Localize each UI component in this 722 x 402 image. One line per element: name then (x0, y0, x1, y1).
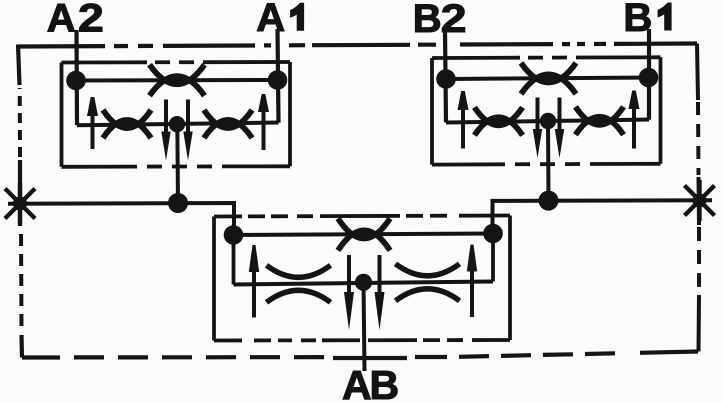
enclosure right lower dashes (697, 227, 701, 293)
orifice AB lower-left (open) (267, 265, 331, 302)
wire: AB left vertical (232, 235, 236, 285)
node: B1 dot (639, 68, 659, 88)
label B2 (413, 0, 467, 41)
check arrow AB left up (249, 245, 259, 318)
label B1 (623, 0, 671, 40)
wire: manifold line right (AB right stub to star) (493, 200, 713, 233)
wire: B lower line (446, 120, 649, 123)
svg-text:2: 2 (441, 0, 467, 41)
svg-text:B: B (370, 362, 400, 402)
label AB (342, 362, 399, 402)
svg-text:A: A (47, 0, 76, 41)
wire: A2 port line (74, 30, 79, 125)
check arrow A right up (258, 94, 269, 150)
orifice B lower-right (crossing) (576, 107, 624, 135)
wire: B1 port line (647, 29, 651, 120)
valve body B: bottom edge (432, 162, 661, 167)
check arrow B right up (629, 91, 640, 149)
enclosure left edge dashes (18, 88, 22, 158)
wire: manifold line left (star to AB left stub) (8, 203, 234, 235)
svg-text:2: 2 (78, 0, 104, 41)
valve body B: top edge (432, 55, 661, 60)
node: B center dot (540, 113, 556, 129)
svg-text:A: A (256, 0, 285, 40)
wire: AB center port down (364, 282, 365, 371)
wire: A top line (76, 78, 278, 83)
enclosure right edge dashes (696, 102, 701, 175)
node: A2 dot (66, 71, 86, 91)
flow arrow B center-right down (555, 98, 564, 159)
valve body AB: left edge (212, 217, 216, 341)
valve body B: bottom edge middle dashes (505, 162, 590, 166)
flow arrow AB center-right down (375, 255, 385, 330)
valve body B: right edge (659, 57, 663, 164)
orifice B lower-left (crossing) (475, 107, 523, 135)
flow arrow A center-right down (183, 100, 192, 161)
valve body A: bottom edge middle dashes (137, 164, 225, 168)
valve body A: right edge (288, 62, 292, 166)
enclosure top dashed line (18, 44, 697, 47)
wire: B center port down (546, 121, 551, 201)
check arrow B left up (458, 91, 469, 149)
orifice B top (crossing) (521, 63, 576, 94)
enclosure left edge lower dashes (19, 228, 24, 333)
check arrow AB right up (467, 245, 477, 318)
flow arrow AB center-left down (344, 255, 354, 330)
wire: AB right vertical (491, 234, 495, 282)
enclosure right edge (697, 44, 699, 352)
node: AB center dot (355, 274, 372, 291)
enclosure left edge (18, 45, 22, 358)
valve body AB: bottom edge (214, 338, 510, 342)
wire: AB top line (234, 234, 494, 236)
orifice AB lower-right (open) (396, 264, 460, 301)
orifice A top (crossing) (150, 65, 205, 96)
svg-text:B: B (413, 0, 442, 41)
node: AB left dot (224, 225, 244, 245)
node: AB right dot (483, 224, 503, 244)
wire: B2 port line (445, 31, 446, 123)
valve body A: top edge (62, 60, 291, 64)
valve body A: top edge middle dashes (147, 60, 205, 64)
valve body A: bottom edge (62, 164, 291, 168)
valve body A: left edge (60, 63, 64, 167)
node: junction dot left (168, 193, 188, 213)
wire: A lower line (77, 123, 279, 126)
valve body AB: right edge (508, 216, 512, 341)
wire: A center port down (175, 124, 180, 203)
valve body B: top edge middle dashes (520, 56, 577, 60)
label A2 (47, 0, 104, 41)
node: A1 dot (268, 70, 288, 90)
node: junction dot right (539, 191, 559, 211)
flow arrow B center-left down (533, 98, 542, 159)
orifice A lower-right (crossing) (204, 110, 252, 138)
node: A center dot (169, 116, 185, 132)
svg-text:B: B (623, 0, 652, 40)
flow arrow A center-left down (161, 100, 170, 161)
valve body AB: top edge (214, 216, 510, 217)
wire: AB lower line (234, 282, 494, 285)
node: B2 dot (436, 69, 456, 89)
check arrow A left up (87, 97, 98, 149)
plugged port star left (5, 183, 35, 224)
enclosure bottom dashed line (22, 352, 698, 359)
svg-text:A: A (342, 362, 372, 402)
label A1 (256, 0, 303, 40)
wire: B top line (446, 78, 649, 80)
wire: A1 port line (278, 29, 279, 123)
valve body B: left edge (430, 58, 434, 165)
plugged port star right (685, 180, 715, 221)
orifice AB top (crossing) (338, 218, 390, 250)
orifice A lower-left (crossing) (103, 110, 151, 138)
